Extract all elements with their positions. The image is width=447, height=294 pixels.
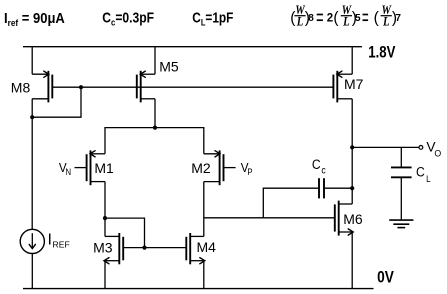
- transistor M8: [11, 71, 53, 103]
- transistor M5 top lead: [141, 73, 155, 75]
- svg-text:L: L: [382, 14, 389, 29]
- svg-text:7: 7: [395, 13, 401, 24]
- svg-text:M8: M8: [11, 79, 31, 95]
- wire M8 drain down to IREF: [31, 99, 33, 230]
- wire VDD to M5 source: [154, 47, 156, 74]
- ground rail 0V: [23, 288, 374, 290]
- transistor M3 source arrow (NMOS): [104, 258, 109, 264]
- label Cc=0.3pF: [102, 9, 154, 27]
- transistor M6 channel bar: [338, 201, 340, 236]
- transistor M4 gate bar: [185, 237, 187, 260]
- transistor M3 channel bar: [118, 233, 120, 264]
- svg-text:M7: M7: [344, 76, 364, 92]
- transistor M1 gate bar: [86, 154, 88, 181]
- junction dot output node: [350, 145, 354, 149]
- transistor M1 source arrow (PMOS): [90, 151, 95, 157]
- transistor M4 bottom lead: [190, 260, 204, 262]
- transistor M3 bottom lead: [105, 260, 119, 262]
- svg-text:0V: 0V: [377, 269, 394, 287]
- junction dot M5 drain at source bus: [153, 126, 157, 130]
- transistor M2 channel bar: [219, 150, 221, 185]
- junction dot M3-M4 gate bus: [142, 246, 146, 250]
- label CL=1pF: [192, 9, 233, 28]
- transistor M8 source arrow (PMOS): [44, 71, 49, 77]
- label formula (W/L)8 = 2(W/L)5 = (W/L)7: [290, 2, 401, 29]
- transistor M5: [137, 58, 179, 102]
- transistor M3 gate bar: [122, 237, 124, 260]
- label 1.8V: [368, 43, 395, 62]
- junction dot gate bus at M8: [79, 85, 83, 89]
- transistor M6 bottom lead: [339, 231, 353, 233]
- transistor M8 bottom lead: [32, 98, 48, 100]
- current source IREF: [20, 229, 44, 253]
- wire IREF to ground rail: [31, 254, 33, 289]
- transistor M2 bottom lead: [204, 181, 220, 183]
- transistor M3: [93, 233, 123, 264]
- wire output node to Vo terminal: [352, 146, 419, 148]
- transistor M6: [335, 201, 363, 236]
- transistor M7 channel bar: [336, 71, 338, 103]
- svg-text:8: 8: [308, 13, 314, 24]
- transistor M4 channel bar: [189, 233, 191, 264]
- transistor M6 source arrow (NMOS): [348, 229, 353, 235]
- svg-text:M2: M2: [191, 160, 211, 176]
- transistor M5 channel bar: [140, 71, 142, 103]
- transistor M2 source arrow (PMOS): [215, 151, 220, 157]
- svg-text:(: (: [374, 10, 380, 27]
- wire VDD to M7 source: [351, 47, 353, 74]
- wire VN input to M1 gate: [75, 167, 87, 169]
- transistor M7 source arrow (PMOS): [337, 71, 342, 77]
- wire M6 source to ground rail: [351, 232, 353, 289]
- wire M2 drain down to M4: [203, 182, 205, 237]
- label VN: [59, 160, 71, 177]
- junction dot M8 drain wire: [30, 115, 34, 119]
- transistor M1 bottom lead: [91, 181, 106, 183]
- transistor M3 top lead: [105, 235, 119, 237]
- wire M4 source to ground rail: [203, 261, 205, 289]
- junction dot M1 drain / M3 mirror tap: [103, 216, 107, 220]
- terminal Vo: [419, 146, 423, 150]
- transistor M5 bottom lead: [141, 98, 155, 100]
- wire first stage output to M6 gate: [204, 217, 335, 219]
- wire M1 drain down to M3: [104, 182, 106, 237]
- label 0V: [377, 269, 394, 287]
- wire M3 diode connection drain to gate: [105, 218, 145, 248]
- transistor M8 top lead: [32, 73, 48, 75]
- wire VDD to M8 source: [31, 47, 33, 74]
- wire gate bus M8-M5-M7: [52, 86, 333, 88]
- transistor M8 channel bar: [47, 71, 49, 103]
- capacitor Cc: [319, 178, 324, 198]
- transistor M7 bottom lead: [337, 98, 352, 100]
- transistor M4 top lead: [190, 235, 204, 237]
- transistor M7: [333, 71, 363, 103]
- svg-text:M5: M5: [159, 58, 179, 74]
- transistor M7 gate bar: [332, 75, 334, 99]
- wire M7 drain down to M6 drain / output node: [351, 99, 353, 204]
- transistor M6 top lead: [339, 203, 353, 205]
- wire CL bottom plate to ground symbol: [400, 177, 402, 220]
- capacitor CL: [391, 167, 412, 177]
- transistor M2 top lead: [204, 153, 220, 155]
- junction dot Cc at output branch: [350, 186, 354, 190]
- wire Cc left plate to M6 gate wire: [263, 188, 319, 218]
- transistor M1: [87, 150, 114, 185]
- svg-text:M1: M1: [94, 160, 114, 176]
- svg-text:M3: M3: [93, 240, 113, 256]
- svg-text:2: 2: [327, 12, 333, 24]
- transistor M6 gate bar: [334, 204, 336, 231]
- transistor M1 channel bar: [90, 150, 92, 185]
- svg-text:L: L: [342, 14, 349, 29]
- label Iref = 90uA: [4, 9, 65, 28]
- svg-text:CL=1pF: CL=1pF: [192, 9, 233, 28]
- transistor M5 source arrow (PMOS): [140, 71, 145, 77]
- svg-text:Cc=0.3pF: Cc=0.3pF: [102, 9, 154, 27]
- power rail 1.8V: [23, 46, 362, 48]
- ground symbol: [389, 220, 413, 228]
- label CL: [416, 163, 431, 184]
- svg-text:M6: M6: [343, 211, 363, 227]
- transistor M4 source arrow (NMOS): [200, 258, 205, 264]
- transistor M4: [186, 233, 216, 264]
- wire M5 drain to diff pair sources: [154, 99, 156, 128]
- wire M3 source to ground rail: [104, 261, 106, 289]
- svg-text:(: (: [333, 10, 339, 27]
- svg-text:M4: M4: [197, 239, 217, 255]
- wire output to CL top plate: [400, 147, 402, 167]
- svg-text:1.8V: 1.8V: [368, 43, 395, 62]
- transistor M5 gate bar: [136, 75, 138, 99]
- transistor M2 gate bar: [223, 154, 225, 181]
- transistor M8 gate bar: [51, 75, 53, 99]
- svg-text:L: L: [296, 14, 303, 29]
- wire M2 gate to VP input: [224, 167, 236, 169]
- wire Cc right plate to output branch: [324, 187, 352, 189]
- transistor M1 top lead: [91, 153, 106, 155]
- wire M3 gate to M4 gate: [124, 247, 187, 249]
- transistor M7 top lead: [337, 73, 352, 75]
- wire diff pair source bus: [105, 128, 204, 154]
- transistor M2: [191, 150, 223, 185]
- label Cc: [312, 156, 326, 175]
- wire M8 diode connection gate to drain: [32, 87, 81, 117]
- svg-text:5: 5: [355, 13, 361, 24]
- label VP: [241, 160, 253, 177]
